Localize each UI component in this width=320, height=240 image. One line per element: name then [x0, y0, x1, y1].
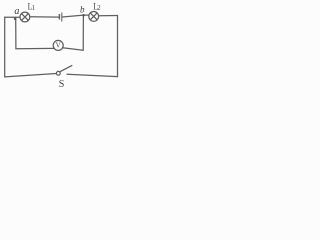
battery cell	[59, 13, 61, 22]
wire L1 to battery	[30, 16, 59, 18]
wire battery to b to L2	[62, 15, 89, 17]
wire b tap vertical	[82, 15, 84, 50]
wire voltmeter left horizontal	[16, 47, 54, 49]
wire L2 to top-right corner	[99, 15, 118, 17]
svg-text:S: S	[59, 79, 65, 90]
svg-text:a: a	[14, 6, 19, 17]
node b	[80, 5, 85, 17]
voltmeter V	[53, 40, 63, 50]
svg-text:b: b	[80, 5, 85, 15]
lamp L1	[20, 0, 35, 21]
wire left vertical	[4, 17, 6, 77]
wire a tap vertical	[15, 18, 17, 49]
wire bottom-left (corner to switch)	[5, 74, 57, 77]
svg-text:2: 2	[97, 5, 101, 12]
switch S	[56, 65, 72, 90]
lamp L2	[89, 0, 102, 21]
wire top-left horizontal	[5, 16, 20, 18]
wire voltmeter right horizontal	[63, 48, 84, 51]
svg-text:V: V	[56, 42, 61, 50]
node a	[14, 6, 20, 20]
wire right vertical	[117, 16, 119, 77]
svg-text:1: 1	[32, 5, 35, 12]
wire bottom-right (switch to corner)	[67, 74, 118, 76]
